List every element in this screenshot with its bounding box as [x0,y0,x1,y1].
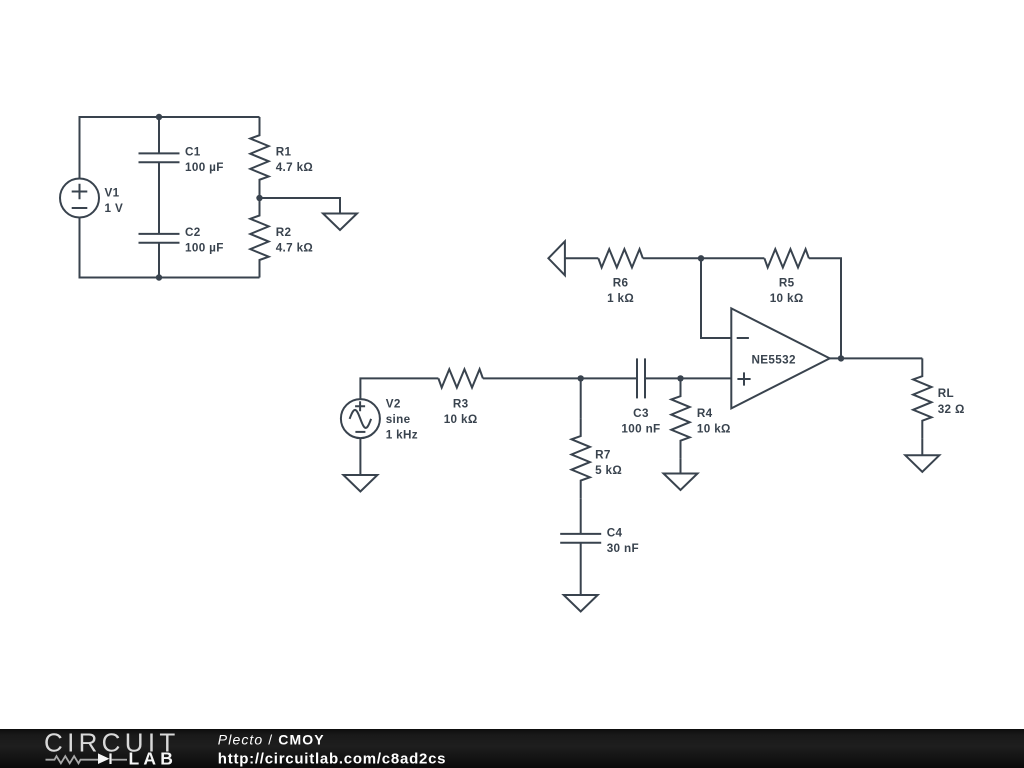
node: C2 bottom junction [156,274,162,280]
wire R6 to R5 [643,257,765,259]
voltage source V2 (sine) [341,399,380,438]
ground G5 (rotated left) [548,241,565,275]
op-amp U1 NE5532 [731,308,829,408]
wire R7 to C4 [580,498,582,534]
resistor R5 [764,249,809,267]
resistor RL [913,358,931,438]
wire V2 top to R3 [360,378,438,399]
svg-text:V2: V2 [386,397,401,410]
svg-text:10 kΩ: 10 kΩ [770,292,804,305]
svg-text:Plecto / CMOY: Plecto / CMOY [218,731,325,747]
ground G2 [343,475,377,492]
svg-text:sine: sine [386,413,411,426]
ground G4 [564,595,598,612]
wire C3 to op-amp + input [645,377,731,379]
wire R5 down to output [809,258,841,358]
node: output junction [838,355,844,361]
svg-text:C4: C4 [607,526,623,539]
capacitor C1 [139,153,180,162]
ground G6 [905,455,939,472]
capacitor C3 [637,358,645,398]
logo resistor-diode glyph [46,753,128,764]
resistor R6 [598,249,643,267]
svg-text:30 nF: 30 nF [607,542,639,555]
svg-text:1 V: 1 V [105,202,124,215]
wire R7 branch [580,378,582,418]
wire top-left: V1 top to R1 top [80,117,260,179]
node: R7 junction [578,375,584,381]
svg-text:http://circuitlab.com/c8ad2cs: http://circuitlab.com/c8ad2cs [218,750,446,767]
svg-text:4.7 kΩ: 4.7 kΩ [276,242,313,255]
svg-text:100 µF: 100 µF [185,242,224,255]
svg-text:NE5532: NE5532 [752,354,796,367]
wire G5 to R6 [565,257,598,259]
node: R4 junction [677,375,683,381]
wire C4 to ground [580,543,582,595]
svg-text:RL: RL [938,387,954,400]
capacitor C2 [139,234,180,243]
svg-text:C1: C1 [185,146,201,159]
svg-text:1 kΩ: 1 kΩ [607,292,634,305]
svg-text:R4: R4 [697,407,713,420]
svg-text:R2: R2 [276,226,292,239]
ground G3 [664,474,698,491]
svg-text:100 µF: 100 µF [185,161,224,174]
svg-text:10 kΩ: 10 kΩ [697,423,731,436]
svg-text:C2: C2 [185,226,201,239]
wire C1 top lead [158,117,160,153]
resistor R7 [572,418,590,498]
capacitor C4 [560,534,601,543]
resistor R3 [438,369,483,387]
resistor R4 [671,378,689,458]
wire inverting input [701,258,731,338]
svg-text:R1: R1 [276,146,292,159]
wire R3 to C3 [483,377,637,379]
node: C1 top junction [156,114,162,120]
svg-text:R5: R5 [779,277,795,290]
svg-text:R3: R3 [453,397,469,410]
voltage source V1 [60,179,99,218]
svg-text:R6: R6 [613,277,629,290]
wire mid node to ground [260,198,341,214]
ground G1 [323,214,357,231]
svg-text:C3: C3 [633,407,649,420]
resistor R2 [250,198,268,278]
wire op-amp output [830,357,923,359]
svg-text:V1: V1 [105,186,120,199]
svg-text:LAB: LAB [129,749,178,768]
svg-text:R7: R7 [595,448,611,461]
wire C1 to C2 [158,162,160,234]
wire V2 to ground [359,438,361,475]
wire R4 to ground [680,458,682,473]
svg-text:100 nF: 100 nF [621,423,660,436]
wire RL to ground [921,438,923,455]
svg-text:32 Ω: 32 Ω [938,403,965,416]
wire bottom-left: V1 bottom to R2 bottom [80,218,260,278]
svg-text:4.7 kΩ: 4.7 kΩ [276,161,313,174]
resistor R1 [250,117,268,198]
wire C2 bottom lead [158,243,160,278]
node: R1/R2 midpoint [256,195,262,201]
svg-text:1 kHz: 1 kHz [386,429,418,442]
svg-text:5 kΩ: 5 kΩ [595,464,622,477]
node: feedback junction [698,255,704,261]
svg-text:10 kΩ: 10 kΩ [444,413,478,426]
